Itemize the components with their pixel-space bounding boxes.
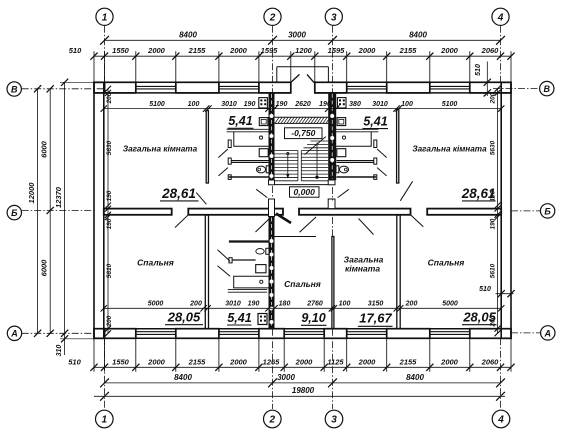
svg-text:3150: 3150 xyxy=(368,301,384,308)
svg-text:200: 200 xyxy=(106,315,113,327)
svg-text:Спальня: Спальня xyxy=(137,258,174,268)
svg-text:А: А xyxy=(10,329,18,339)
extension lines below bottom wall xyxy=(93,339,95,372)
svg-text:2155: 2155 xyxy=(188,357,207,366)
bath south wall (bottom-left) xyxy=(229,240,269,242)
svg-text:5630: 5630 xyxy=(106,140,113,155)
svg-text:5,41: 5,41 xyxy=(227,311,251,325)
doorway jamb wall (east, at spine) xyxy=(328,199,335,209)
svg-text:5630: 5630 xyxy=(490,140,497,155)
svg-text:5100: 5100 xyxy=(442,101,458,108)
axis bubble V (left) xyxy=(7,82,21,96)
svg-text:2155: 2155 xyxy=(188,46,207,55)
level mark -0,750 (boxed) xyxy=(285,128,323,139)
svg-text:180: 180 xyxy=(279,301,291,308)
vent block (bottom-left) xyxy=(258,314,267,325)
svg-text:2000: 2000 xyxy=(358,46,377,55)
svg-text:2060: 2060 xyxy=(481,46,500,55)
svg-text:кімната: кімната xyxy=(345,263,380,273)
dimension: right wall thickness 510 (bottom right) xyxy=(496,293,514,295)
svg-text:3: 3 xyxy=(331,415,337,426)
svg-text:1200: 1200 xyxy=(295,46,313,55)
svg-text:28,61: 28,61 xyxy=(461,186,496,201)
vent shaft symbol (top-right) xyxy=(337,98,346,108)
axis bubble 3 (top) xyxy=(325,8,342,25)
axis line 3 (vertical) xyxy=(332,26,334,93)
svg-text:100: 100 xyxy=(401,101,413,108)
axis line 4 (vertical) xyxy=(500,26,502,83)
porch: entrance canopy outline xyxy=(276,67,278,83)
svg-text:190: 190 xyxy=(276,101,288,108)
dimension column: 12370 and 310 (left) xyxy=(64,82,66,355)
wall: under-stair diagonal wall xyxy=(276,214,291,224)
wall: stair east wall (upper, with vent holes) xyxy=(328,93,336,180)
svg-text:2: 2 xyxy=(269,415,276,426)
svg-text:200: 200 xyxy=(405,301,418,308)
kitchen table (top-left) xyxy=(234,132,269,146)
svg-text:2155: 2155 xyxy=(399,357,418,366)
axis bubble A (left) xyxy=(7,326,21,340)
svg-text:5610: 5610 xyxy=(490,263,497,278)
partition: bottom-left apartment (bedroom/bath) xyxy=(205,215,208,329)
dimension column: 6000/6000 (left) xyxy=(49,89,51,333)
wall: right exterior wall xyxy=(501,82,511,338)
svg-text:200: 200 xyxy=(490,92,497,104)
svg-text:190: 190 xyxy=(490,218,497,229)
doorway jamb wall (west, at spine) xyxy=(269,199,275,217)
svg-text:А: А xyxy=(544,328,552,338)
svg-text:4: 4 xyxy=(497,415,504,426)
svg-text:380: 380 xyxy=(349,101,361,108)
wall: top wall piers xyxy=(94,82,105,93)
svg-text:В: В xyxy=(11,84,18,94)
svg-text:2000: 2000 xyxy=(147,46,166,55)
svg-text:28,05: 28,05 xyxy=(167,310,201,325)
door leaf: top-right living room door xyxy=(400,181,412,201)
svg-text:28,05: 28,05 xyxy=(462,310,496,325)
wall: top exterior wall inner face xyxy=(94,92,291,94)
interior dimension column (left rooms) xyxy=(107,89,109,333)
wall: left exterior wall xyxy=(94,82,104,338)
svg-text:190: 190 xyxy=(106,218,113,229)
svg-text:310: 310 xyxy=(56,345,63,357)
svg-text:2760: 2760 xyxy=(306,301,323,308)
bath north wall (top-left) xyxy=(231,160,269,162)
door leaf: kitchen door (top-right) xyxy=(377,149,387,158)
dimension row: bottom overall 19800 xyxy=(94,395,505,397)
svg-text:190: 190 xyxy=(106,190,113,201)
svg-text:3000: 3000 xyxy=(277,373,295,382)
stair: down-arrow on left flight xyxy=(287,153,289,155)
axis bubble 2 (top) xyxy=(264,8,281,25)
door leaf: bath door (top-right) xyxy=(377,168,387,176)
door leaf: top-left apartment entrance xyxy=(256,189,267,197)
axis line B (horizontal) xyxy=(22,210,94,212)
interior dimension column (right rooms) xyxy=(497,89,499,333)
svg-text:3000: 3000 xyxy=(288,30,306,39)
wall: stair west wall (lower, with vent holes) xyxy=(269,217,275,329)
svg-text:17,67: 17,67 xyxy=(359,311,392,326)
dimension: top wall thickness 510 (right) xyxy=(486,62,488,97)
axis bubble 1 (bottom) xyxy=(96,410,114,428)
svg-text:190: 190 xyxy=(248,301,260,308)
axis line A (horizontal) xyxy=(22,332,94,334)
svg-text:Б: Б xyxy=(11,208,18,218)
appliance (top-left) xyxy=(259,149,268,157)
extension lines above top wall xyxy=(93,51,95,82)
svg-text:2155: 2155 xyxy=(399,46,418,55)
svg-text:1550: 1550 xyxy=(112,357,130,366)
svg-text:5100: 5100 xyxy=(149,101,165,108)
svg-text:4: 4 xyxy=(497,13,504,24)
toilet (top-right) xyxy=(336,166,339,173)
axis bubble 3 (bottom) xyxy=(325,410,343,428)
svg-text:0,000: 0,000 xyxy=(294,187,316,197)
svg-text:1: 1 xyxy=(102,13,108,24)
stair: upper landing edge (hatched strip) xyxy=(275,116,329,118)
svg-text:1595: 1595 xyxy=(328,46,346,55)
stair: upper treads of right flight (beyond break) xyxy=(311,140,329,142)
svg-text:Б: Б xyxy=(544,206,551,216)
svg-text:2000: 2000 xyxy=(147,357,166,366)
svg-text:1550: 1550 xyxy=(112,46,130,55)
kitchen door jambs (top-right) xyxy=(374,140,377,148)
svg-text:100: 100 xyxy=(188,101,200,108)
toilet (bottom-left) xyxy=(266,248,269,254)
windows in bottom wall (frame lines) xyxy=(136,331,176,333)
partition: top-left apartment (living/kitchen) xyxy=(206,111,208,184)
svg-text:2000: 2000 xyxy=(229,46,248,55)
svg-text:200: 200 xyxy=(106,92,113,104)
kitchen table (bottom-left) xyxy=(234,276,269,288)
axis bubble V (right) xyxy=(540,81,554,95)
svg-text:28,61: 28,61 xyxy=(161,186,196,201)
svg-text:19800: 19800 xyxy=(292,386,315,395)
svg-text:Спальня: Спальня xyxy=(284,279,321,289)
bath north wall (top-right) xyxy=(337,160,375,162)
svg-text:510: 510 xyxy=(475,64,482,76)
extension line: bottom outer face (left) xyxy=(60,338,94,340)
wall: bottom exterior wall inner face xyxy=(94,328,511,330)
svg-text:1125: 1125 xyxy=(327,357,344,366)
dimension row: bottom window chain xyxy=(94,366,511,368)
wall: bottom wall piers xyxy=(94,329,105,339)
kitchen door jambs (top-left) xyxy=(228,140,231,148)
svg-text:8400: 8400 xyxy=(174,373,192,382)
svg-text:190: 190 xyxy=(244,101,256,108)
hall north wall (top-left) xyxy=(229,176,269,178)
svg-text:3010: 3010 xyxy=(225,301,241,308)
dimension row: top overall 8400/3000/8400 xyxy=(105,39,501,41)
svg-text:12000: 12000 xyxy=(27,182,36,204)
axis bubble 4 (bottom) xyxy=(492,410,510,428)
door leaf: bottom-left bedroom door at spine wall xyxy=(175,215,188,227)
svg-text:6000: 6000 xyxy=(40,140,49,158)
svg-text:5000: 5000 xyxy=(148,301,164,308)
door jamb stub (bottom-left) xyxy=(229,258,232,263)
svg-text:5,41: 5,41 xyxy=(228,114,252,128)
partition: bottom-middle (bedroom 9,10 / living 17,67) xyxy=(332,237,334,329)
svg-text:1265: 1265 xyxy=(263,357,281,366)
svg-text:510: 510 xyxy=(68,357,81,366)
svg-text:2000: 2000 xyxy=(440,357,459,366)
door leaf: living 17,67 door xyxy=(359,219,374,235)
kitchen table (top-right) xyxy=(336,132,371,146)
axis bubble A (right) xyxy=(541,326,555,340)
wall: stair west wall (upper, with vent holes) xyxy=(269,93,275,180)
wall: top exterior wall outer face xyxy=(94,81,291,83)
svg-text:Загальна кімната: Загальна кімната xyxy=(123,145,198,154)
hall north wall (top-right) xyxy=(337,176,377,178)
extension line: top outer face (left) xyxy=(60,81,94,83)
door jamb stub (east stair wall) xyxy=(328,180,335,185)
svg-text:200: 200 xyxy=(189,301,202,308)
svg-text:2000: 2000 xyxy=(229,357,248,366)
axis line 1 (vertical) xyxy=(104,26,106,83)
partition: top-right apartment (living/kitchen) xyxy=(397,109,399,183)
svg-text:-0,750: -0,750 xyxy=(291,128,315,138)
svg-text:2000: 2000 xyxy=(295,357,314,366)
porch: entrance double door leaves xyxy=(291,74,300,82)
stair: break line on right flight xyxy=(305,137,326,155)
svg-text:2620: 2620 xyxy=(294,101,311,108)
door leaf: bottom-left apartment entrance xyxy=(256,219,270,232)
kitchen sink unit (top-right) xyxy=(337,118,346,126)
door jambs of entrance doorway in top wall xyxy=(290,82,292,93)
axis bubble B (right) xyxy=(540,204,554,218)
svg-text:8400: 8400 xyxy=(409,30,427,39)
axis bubble 1 (top) xyxy=(96,8,113,25)
door leaf: kitchen door (top-left) xyxy=(218,149,228,158)
door leaf: bedroom 9,10 door xyxy=(300,217,317,232)
svg-text:510: 510 xyxy=(69,46,82,55)
wall: central spine wall at axis B xyxy=(104,209,172,215)
door leaf: top-left living room door xyxy=(196,193,206,205)
corridor wall of bedroom 9,10 xyxy=(275,236,317,238)
svg-text:3010: 3010 xyxy=(221,101,237,108)
vent shaft symbol (top-left) xyxy=(259,98,268,108)
kitchen counter (top-left) xyxy=(227,128,269,130)
interior dimension row (top apartments) xyxy=(104,108,501,110)
toilet (top-left) xyxy=(266,166,269,173)
door jamb stub (west stair wall) xyxy=(269,180,275,185)
svg-text:2000: 2000 xyxy=(440,46,459,55)
axis line 2 (vertical) xyxy=(272,26,274,93)
partition: bottom-right (living 17,67 / bedroom 28,05) xyxy=(397,215,400,329)
svg-text:Спальня: Спальня xyxy=(428,258,465,268)
stair: flight treads xyxy=(275,150,298,152)
svg-text:1595: 1595 xyxy=(261,46,279,55)
kitchen sink unit (top-left) xyxy=(259,118,268,126)
wall: bottom exterior wall outer face xyxy=(94,337,511,339)
door leaf: top-right apartment entrance xyxy=(338,189,349,197)
appliance (top-right) xyxy=(337,149,346,157)
svg-text:510: 510 xyxy=(479,286,491,293)
kitchen counter (top-right) xyxy=(336,128,378,130)
kitchen counter (bottom-left) xyxy=(228,288,267,290)
svg-text:5,41: 5,41 xyxy=(363,114,387,128)
svg-text:190: 190 xyxy=(319,101,331,108)
svg-text:3010: 3010 xyxy=(372,101,388,108)
svg-text:6000: 6000 xyxy=(40,259,49,277)
svg-text:В: В xyxy=(544,84,551,94)
dimension column: 12000 (left) xyxy=(37,89,39,333)
dimension row: top window chain xyxy=(94,55,511,57)
axis bubble 4 (top) xyxy=(492,8,509,25)
svg-text:12370: 12370 xyxy=(54,186,63,208)
axis line V (horizontal) xyxy=(22,88,104,90)
stair: bottom landing edge xyxy=(275,184,329,186)
svg-text:2: 2 xyxy=(269,13,276,24)
svg-text:2060: 2060 xyxy=(481,357,500,366)
svg-text:5000: 5000 xyxy=(442,301,458,308)
axis bubble B (left) xyxy=(7,205,21,219)
interior dimension row (bottom apartments) xyxy=(104,307,501,309)
sink unit (bottom-left) xyxy=(256,265,266,273)
svg-text:2000: 2000 xyxy=(358,357,377,366)
level mark 0,000 (boxed) xyxy=(290,187,320,197)
door leaf: kitchen door (bottom-left) xyxy=(218,266,231,276)
svg-text:5610: 5610 xyxy=(106,263,113,278)
door leaf: bath door (top-left) xyxy=(218,168,228,176)
svg-text:8400: 8400 xyxy=(406,373,424,382)
svg-text:3: 3 xyxy=(331,13,337,24)
axis bubble 2 (bottom) xyxy=(264,410,282,428)
svg-text:9,10: 9,10 xyxy=(301,311,325,325)
svg-text:100: 100 xyxy=(339,301,351,308)
windows in top wall (frame lines) xyxy=(136,85,176,87)
dimension row: bottom 8400/3000/8400 xyxy=(105,382,501,384)
svg-text:8400: 8400 xyxy=(179,30,197,39)
svg-text:Загальна кімната: Загальна кімната xyxy=(412,145,487,154)
door leaf: bottom-right bedroom door at spine wall xyxy=(411,215,423,227)
stair: up-arrow on right flight xyxy=(316,176,318,178)
door leaf: bath door (bottom-left) xyxy=(218,250,231,262)
bath partition line (bottom-left) xyxy=(232,259,255,261)
svg-text:1: 1 xyxy=(102,415,108,426)
